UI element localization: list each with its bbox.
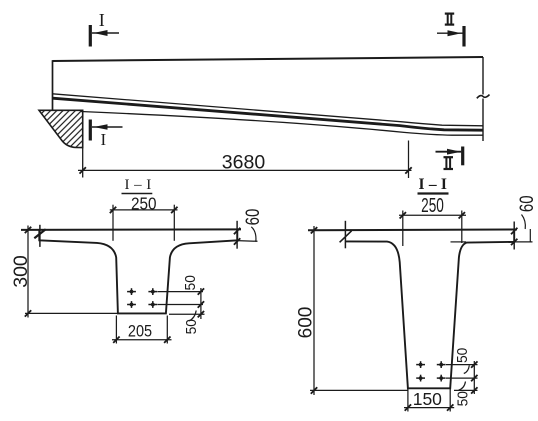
flange tip underside extension (left section) [237, 240, 257, 243]
left tip tick [34, 229, 45, 238]
60 top tick [234, 228, 240, 234]
svg-text:250: 250 [421, 195, 444, 217]
svg-text:600: 600 [296, 307, 317, 339]
beam top edge [53, 57, 484, 61]
leader arc upper (right 50) [464, 365, 470, 373]
rebar row1 extension (left) [158, 291, 204, 293]
rebar row1 extension (right) [446, 364, 478, 366]
svg-text:3680: 3680 [222, 152, 266, 174]
150 right extension [449, 389, 451, 412]
205 left tick [113, 337, 119, 343]
bottom dim extension (right) [454, 389, 478, 391]
205 right tick [164, 337, 170, 343]
leader arc lower (right 50) [459, 382, 466, 391]
dim text 250 (left section) [131, 193, 157, 213]
dim 150 line [404, 407, 454, 409]
rebar row2 extension (right) [446, 377, 478, 379]
beam bottom edge upper line [53, 94, 484, 126]
600 bottom tick [311, 387, 317, 393]
svg-text:50: 50 [183, 319, 199, 334]
dim 600 line [313, 226, 315, 395]
svg-text:I–I: I–I [125, 177, 156, 193]
60 leader arc [251, 227, 256, 242]
right section outline [345, 230, 514, 389]
60 bottom tick [234, 238, 240, 244]
support corbel (hatched) [39, 110, 83, 147]
svg-text:I–I: I–I [419, 176, 452, 193]
section mark I (top) cut line [89, 25, 92, 47]
svg-text:205: 205 [128, 323, 152, 341]
section mark II (lower) label [444, 157, 454, 169]
svg-text:250: 250 [131, 193, 157, 213]
300 bottom tick [25, 310, 31, 316]
bottom dim extension (left) [169, 313, 205, 315]
150 left tick [405, 404, 411, 410]
tick bottom [198, 311, 204, 317]
dim line 250 (right) [399, 214, 466, 216]
svg-text:60: 60 [517, 195, 538, 212]
left section outline [39, 230, 237, 314]
left tip extension line [39, 225, 41, 247]
section mark II (top) label [445, 14, 454, 25]
dim 3680 right tick [405, 167, 411, 173]
flange tip underside extension (right sec) [514, 241, 532, 243]
section mark II (top) cut line [462, 26, 465, 47]
tick row1 [198, 288, 204, 294]
svg-text:I: I [99, 10, 105, 30]
250 right tick (right sec) [459, 212, 465, 218]
205 right extension [166, 316, 168, 344]
left tip tick (right sec) [340, 231, 352, 243]
250 left tick (right sec) [400, 212, 406, 218]
60 top tick (right sec) [511, 228, 517, 234]
section mark I (lower) view arrow [92, 124, 123, 130]
dim 50/50 line (left) [200, 288, 202, 319]
svg-text:50: 50 [454, 348, 470, 363]
section mark I (lower) cut line [89, 120, 92, 141]
dim 3680 left tick [80, 167, 86, 173]
150 right tick [447, 404, 453, 410]
section mark II (top) view arrow [437, 30, 463, 36]
205 left extension [115, 316, 117, 344]
rebar marks (left section) [127, 288, 157, 308]
dim 300 line [27, 226, 29, 318]
250 right extension (right sec) [461, 211, 463, 244]
250 left extension line [112, 205, 114, 241]
250 left extension (right sec) [402, 211, 404, 247]
250 right extension line [173, 205, 175, 241]
leader arc (left 50) [189, 311, 196, 322]
250 right tick [171, 207, 177, 213]
flange tip dim line (left section 60) [236, 221, 238, 249]
tick bottom (right) [471, 387, 477, 393]
svg-text:50: 50 [182, 275, 198, 290]
svg-text:I: I [100, 130, 106, 149]
dim text 205 [128, 323, 152, 341]
dim 3680 right extension [408, 141, 410, 179]
60 leader arc (right sec) [522, 215, 526, 230]
beam right edge with break mark [477, 57, 490, 141]
600 top tick [311, 227, 317, 233]
right section flange left tip line [344, 221, 346, 249]
dim 3680 line [78, 169, 412, 171]
svg-text:50: 50 [454, 391, 470, 406]
tick row2 [198, 301, 204, 307]
svg-text:150: 150 [413, 389, 442, 409]
250 left tick [110, 207, 116, 213]
corbel edge extension line [82, 148, 84, 178]
underside reference dash (right sec) [451, 241, 467, 243]
title underline (left) [122, 193, 153, 195]
rebar marks (right section) [416, 361, 445, 381]
dim line 250 (left) [110, 209, 178, 211]
bottom extension line (left section) [25, 312, 118, 314]
150 left extension [407, 389, 409, 412]
title underline (right) [418, 192, 449, 194]
svg-text:60: 60 [242, 209, 263, 226]
right section top flange line [308, 229, 517, 232]
beam left edge [52, 60, 54, 111]
beam bottom edge thick line [53, 98, 484, 130]
bottom extension to 600 dim [310, 389, 408, 391]
60 bottom tick (right sec) [511, 239, 517, 245]
dim 205 line [112, 339, 172, 341]
section mark II (lower) cut line [461, 147, 464, 166]
dim text 150 [413, 389, 442, 409]
section mark I (top) view arrow [92, 30, 119, 36]
svg-text:300: 300 [10, 255, 32, 288]
rebar row2 extension (left) [158, 304, 204, 306]
300 top tick [25, 227, 31, 233]
beam soffit line from corbel [81, 112, 483, 136]
tick row1 (right) [471, 361, 477, 367]
tick row2 (right) [471, 375, 477, 381]
section mark II (lower) view arrow [436, 149, 462, 155]
dim text 250 (right section) [421, 195, 444, 217]
flange tip dim line (right section 60) [513, 222, 515, 250]
dim 50/50 line (right) [473, 361, 475, 394]
60 leader stub (right sec) [529, 229, 531, 242]
left section top flange line [21, 228, 241, 231]
